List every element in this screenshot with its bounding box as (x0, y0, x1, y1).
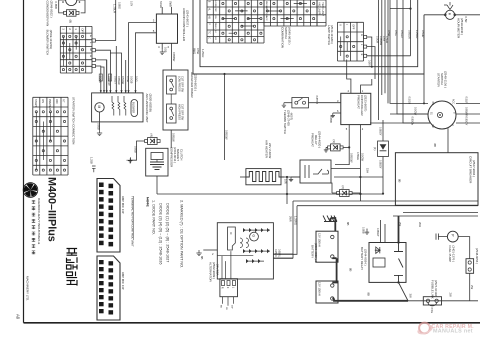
svg-text:ON: ON (214, 15, 216, 19)
lamp switch table (338, 22, 364, 61)
low press cut switch (167, 76, 177, 94)
svg-text:AMP MIC 13P: AMP MIC 13P (121, 196, 125, 214)
svg-text:0.85B: 0.85B (54, 2, 58, 9)
svg-text:0.5GW: 0.5GW (414, 107, 418, 116)
svg-text:PREHEAT: PREHEAT (48, 99, 51, 111)
battery B1 (316, 231, 338, 262)
Daewoo logo flower (23, 183, 38, 198)
svg-text:(2549-9102 ): (2549-9102 ) (50, 1, 54, 18)
inline connector marks (99, 74, 102, 81)
svg-text:RECEIVER DRIER: RECEIVER DRIER (190, 72, 194, 98)
svg-text:15A: 15A (366, 168, 370, 173)
wire thermo left ground (284, 102, 292, 104)
bundle arrowheads (100, 90, 137, 93)
aircon controller top pins (162, 7, 171, 14)
blower switch SW1 table (60, 26, 92, 73)
svg-text:OFF: OFF (214, 8, 216, 13)
svg-text:HI: HI (214, 31, 216, 34)
svg-text:P: P (450, 234, 454, 236)
svg-text:CUT OFF SW: CUT OFF SW (181, 76, 185, 93)
starter switch SW2 (428, 101, 456, 129)
svg-text:P/T: P/T (62, 99, 64, 103)
svg-text:0.85LW: 0.85LW (172, 133, 176, 142)
svg-text:STARTER: STARTER (437, 73, 441, 88)
svg-text:8B: 8B (346, 222, 350, 226)
wire alternator F line (217, 255, 253, 257)
svg-text:1.25LR: 1.25LR (201, 49, 205, 57)
svg-text:(2): (2) (341, 186, 345, 189)
svg-text:0.5LW: 0.5LW (421, 30, 425, 38)
wire bundle top right (390, 0, 430, 123)
svg-text:(2401-1276 ): (2401-1276 ) (452, 246, 456, 263)
svg-text:STARTER SWITCH CONNECTION: STARTER SWITCH CONNECTION (72, 97, 76, 144)
svg-text:0.85GW: 0.85GW (349, 153, 353, 163)
alternator G1 (217, 223, 273, 279)
svg-text:TC: TC (208, 31, 210, 34)
svg-text:0.25LR: 0.25LR (274, 249, 277, 257)
thermo switch (292, 98, 309, 108)
svg-text:M400–IIIPlus: M400–IIIPlus (46, 177, 58, 242)
wire pin2 long drop (359, 128, 361, 201)
svg-text:FUEL PUMP: FUEL PUMP (448, 246, 452, 263)
alternator ground 8B (203, 249, 217, 251)
svg-text:0.85YB: 0.85YB (315, 96, 319, 105)
svg-text:8B: 8B (349, 268, 353, 272)
svg-text:(2204-9033 ): (2204-9033 ) (194, 74, 198, 91)
wire starter B down (447, 128, 449, 152)
svg-text:M: M (97, 106, 101, 109)
svg-text:(2920-9025B): (2920-9025B) (149, 94, 153, 112)
svg-text:DIODE (3) (4) (9) − (12) : 254: DIODE (3) (4) (9) − (12) : 2548-1026 (159, 203, 163, 265)
wires starter switch right (456, 103, 480, 123)
svg-text:0.85GW: 0.85GW (225, 130, 229, 140)
starter connection contacts (35, 111, 37, 113)
svg-text:(2527-9004 ): (2527-9004 ) (472, 160, 476, 177)
aircon controller left pins wires (107, 23, 157, 93)
hour meter top bracket (444, 2, 453, 10)
svg-text:TERMINAL NO FOR CONTROL UNIT: TERMINAL NO FOR CONTROL UNIT (131, 196, 135, 247)
air handling unit box (92, 93, 143, 122)
svg-text:0.85GR: 0.85GR (408, 30, 412, 39)
svg-text:(A545-9615 ): (A545-9615 ) (288, 27, 292, 45)
circuit breaker box (395, 153, 478, 206)
lamp switch terminals (364, 36, 367, 39)
svg-text:20A: 20A (418, 222, 422, 227)
alternator regulator box (228, 227, 236, 250)
svg-text:0.5W: 0.5W (126, 76, 130, 83)
fuse holder (466, 259, 474, 274)
bus wire y201 (293, 200, 478, 202)
bus wire y216 (393, 215, 478, 217)
svg-text:BR: BR (431, 102, 433, 106)
svg-text:2WR: 2WR (289, 216, 293, 222)
wire air handling ground (99, 112, 101, 130)
preheat relay K1 (300, 160, 331, 183)
bus wire y212 (403, 211, 478, 213)
wire bundle to air handling unit (116, 46, 125, 93)
preheat controller U2 (341, 93, 371, 124)
svg-text:DAEWOO HEAVY INDUSTRIES &: DAEWOO HEAVY INDUSTRIES & (37, 198, 41, 244)
svg-text:MACHINERY LTD.: MACHINERY LTD. (26, 276, 30, 301)
svg-text:THERMO SWITCH: THERMO SWITCH (283, 110, 287, 134)
preheat relay ground (291, 176, 300, 178)
wire drops middle (273, 194, 297, 258)
svg-text:(2548-27435: (2548-27435 (286, 110, 290, 126)
aircon controller bottom pin 4 with ground (161, 43, 163, 49)
svg-text:(2523-9007): (2523-9007) (364, 95, 368, 111)
svg-text:0.85WL: 0.85WL (277, 249, 280, 258)
wire thermo to preheat controller (309, 102, 341, 104)
svg-text:CIRCUIT BREAKER: CIRCUIT BREAKER (469, 156, 473, 184)
combination switch table right section (264, 0, 317, 26)
svg-text:FUSIBLE LINK: FUSIBLE LINK (431, 280, 435, 299)
wires lamp switch right (367, 37, 411, 79)
bus wire y194 (157, 193, 383, 195)
battery B2 (316, 281, 338, 303)
alternator rotor circle (250, 232, 259, 241)
svg-text:HU: HU (208, 16, 210, 20)
svg-text:(3): (3) (332, 140, 336, 143)
svg-text:(2549-113203): (2549-113203) (49, 30, 53, 49)
svg-text:0.85B: 0.85B (329, 116, 333, 123)
wire hour meter right (455, 14, 480, 16)
svg-text:OFF: OFF (352, 24, 356, 30)
air handling resistors (112, 96, 126, 116)
blower switch contacts (62, 35, 64, 37)
svg-text:BATTERY RELAY: BATTERY RELAY (360, 247, 364, 270)
battery interconnect cable (332, 258, 336, 282)
wire 15A line (331, 169, 383, 178)
ground below air handling (97, 130, 102, 136)
wire diode3 right (343, 146, 349, 148)
blower oval label (131, 100, 138, 117)
svg-text:1.25LR: 1.25LR (113, 4, 117, 13)
svg-text:1. DIODE PART NO.: 1. DIODE PART NO. (152, 200, 156, 235)
wires alternator right to bus (273, 254, 293, 258)
battery relay top thick cable (398, 216, 400, 243)
condenser fan motor M1 (66, 0, 77, 6)
wire condenser fan left lead (59, 0, 85, 13)
Korean company glyphs drawn (32, 201, 35, 204)
svg-text:(4): (4) (149, 134, 153, 137)
svg-text:BLOWER SWITCH: BLOWER SWITCH (46, 30, 50, 56)
wire pin5 to preheat relay (335, 128, 349, 164)
head lamp header column (317, 0, 326, 26)
svg-text:0.5GB: 0.5GB (130, 76, 134, 84)
svg-text:HORN: HORN (214, 1, 216, 8)
svg-text:0.5GR: 0.5GR (376, 36, 379, 43)
Korean logotype block drawn (67, 249, 78, 286)
receiver drier box (163, 70, 188, 130)
svg-text:(9): (9) (69, 20, 73, 24)
svg-text:0.5G: 0.5G (430, 308, 434, 314)
svg-text:SWITCH: SWITCH (440, 73, 444, 85)
svg-text:0.85GY: 0.85GY (379, 127, 382, 136)
svg-text:(2539-9040 ): (2539-9040 ) (460, 18, 464, 35)
svg-text:0.5W: 0.5W (196, 48, 200, 55)
battery relay ground (366, 229, 368, 231)
svg-text:MANUALS net: MANUALS net (433, 329, 473, 335)
combination switch link bars (222, 4, 307, 34)
svg-text:A0: A0 (16, 314, 21, 320)
svg-text:0.5Y: 0.5Y (130, 1, 133, 6)
combination switch table left section (207, 0, 264, 43)
svg-text:0.85Gb: 0.85Gb (411, 117, 415, 126)
svg-text:R: R (221, 287, 225, 289)
svg-text:COMBINATION: COMBINATION (281, 27, 285, 48)
svg-text:0.85B: 0.85B (133, 146, 137, 153)
svg-text:DIODE (1) (2) (5) − (8) : 25: DIODE (1) (2) (5) − (8) : 2548-1027 (166, 203, 170, 262)
svg-text:0.5GO: 0.5GO (400, 30, 404, 38)
watermark logo circle (418, 323, 474, 335)
battery relay contacts (394, 243, 403, 283)
svg-text:1.25B: 1.25B (90, 157, 94, 164)
alternator stator coils (240, 238, 248, 248)
svg-text:(2548-9056 ): (2548-9056 ) (475, 248, 479, 264)
svg-text:0.85LY: 0.85LY (114, 76, 118, 84)
svg-text:CUT OFF SW: CUT OFF SW (181, 104, 185, 121)
connector CN2 AMP MIC 13P (97, 256, 120, 320)
svg-text:12V 150AH: 12V 150AH (318, 282, 322, 296)
preheat controller pin6 ground (333, 112, 341, 114)
svg-text:(2549-1136 ): (2549-1136 ) (444, 71, 448, 88)
svg-text:0.5GW: 0.5GW (361, 153, 365, 162)
preheat controller bottom pins (349, 125, 360, 129)
diode D1 (382, 120, 384, 194)
wire fuse down (469, 273, 471, 301)
svg-text:ACC: ACC (265, 16, 268, 21)
fuel pump left lead (436, 234, 447, 240)
svg-text:0.85B: 0.85B (362, 227, 365, 234)
svg-text:0.5GO: 0.5GO (408, 97, 412, 105)
svg-text:(2543-113201): (2543-113201) (330, 25, 334, 44)
svg-text:22V 2.6KW: 22V 2.6KW (268, 143, 272, 158)
svg-text:0.85LgB: 0.85LgB (108, 76, 112, 86)
svg-text:1.25LR: 1.25LR (415, 30, 419, 38)
battery relay diode (375, 247, 381, 253)
svg-text:2W: 2W (449, 293, 453, 298)
svg-text:ON: ON (41, 99, 44, 103)
svg-text:0.5WG: 0.5WG (356, 152, 359, 160)
fuel pump M4 (447, 231, 458, 242)
svg-text:0.85BW: 0.85BW (172, 52, 176, 62)
wire blower E to 1.25LR riser (95, 0, 115, 41)
fuel pump right wire (458, 237, 470, 259)
svg-text:(2543-9037 ): (2543-9037 ) (186, 10, 190, 27)
wire air heater to preheat relay (281, 176, 300, 178)
svg-text:HEAD LAMP: HEAD LAMP (321, 2, 324, 16)
svg-text:CONTROLLER: CONTROLLER (360, 95, 364, 116)
high press cut switch (167, 104, 177, 123)
wire relay to fusible link (399, 282, 409, 300)
preheat controller pins (347, 60, 372, 94)
battery ground hatched (323, 216, 337, 222)
svg-text:0.85RW: 0.85RW (379, 36, 382, 46)
air heater R1 (246, 169, 281, 185)
diode D3 (331, 144, 341, 151)
svg-text:RELAY: RELAY (314, 135, 318, 145)
svg-text:BLOWER: BLOWER (131, 102, 135, 113)
battery relay coil box (373, 258, 385, 267)
svg-text:8B: 8B (367, 293, 371, 297)
wire air heater left (240, 176, 246, 178)
svg-text:AIR HEATER: AIR HEATER (264, 140, 268, 159)
svg-text:0.5Y: 0.5Y (382, 36, 385, 41)
svg-text:PREHEAT: PREHEAT (311, 133, 315, 147)
border frame bottom (24, 322, 480, 324)
svg-text:AIR HANDLING UNIT: AIR HANDLING UNIT (145, 94, 149, 123)
battery relay K2 (369, 243, 406, 283)
svg-text:AMP MIC 13P: AMP MIC 13P (121, 272, 125, 290)
compressor box (146, 148, 168, 176)
svg-text:8B: 8B (398, 179, 402, 183)
wire diode3 ground (326, 146, 328, 148)
svg-text:2. MARKED (*) : CE OPTION PART: 2. MARKED (*) : CE OPTION PART NO. (180, 200, 184, 268)
svg-text:0.85B: 0.85B (96, 123, 100, 130)
svg-text:(2544-9034 ): (2544-9034 ) (364, 249, 368, 266)
wire blower L down (95, 50, 121, 93)
svg-text:0.85LW: 0.85LW (117, 76, 121, 85)
ground compressor left (127, 157, 131, 163)
svg-text:ALTERNATOR: ALTERNATOR (209, 262, 213, 283)
battery relay wires to top verticals (381, 220, 385, 243)
svg-text:OFF: OFF (81, 28, 85, 34)
svg-text:(2506-6008 )x2: (2506-6008 )x2 (314, 243, 318, 263)
svg-text:CONDENSER FAN: CONDENSER FAN (46, 1, 50, 27)
wire receiver drier to compressor (170, 130, 172, 148)
svg-text:0.85GY: 0.85GY (379, 160, 382, 169)
hour meter M3 (445, 10, 454, 19)
battery cable B1+ (331, 218, 336, 231)
svg-text:(1): (1) (373, 147, 377, 150)
wire heater junction down (286, 177, 288, 194)
wire receiver drier internal (170, 94, 172, 104)
svg-text:PREHEAT: PREHEAT (357, 95, 361, 109)
aircon controller U1 (156, 14, 177, 43)
alternator connector stubs (223, 297, 234, 306)
svg-text:ACC: ACC (452, 99, 455, 104)
junction dot W1 (223, 73, 225, 75)
wire diode2 right (352, 192, 360, 194)
wire 0.85GW drop to preheat area (224, 74, 226, 160)
svg-text:SWITCH: SWITCH (284, 27, 288, 39)
svg-text:CLUTCH: CLUTCH (179, 149, 183, 160)
wire aircon pin2 to low press sw (171, 43, 173, 70)
blower motor M2 (95, 103, 104, 112)
svg-text:SOLR: SOLR (159, 1, 163, 8)
fusible link F1 (423, 297, 441, 305)
svg-text:(2544-4020 ): (2544-4020 ) (318, 131, 322, 148)
svg-text:LAMP SWITCH: LAMP SWITCH (327, 25, 331, 45)
magnet clutch symbol (151, 153, 163, 160)
svg-text:IC: IC (229, 232, 233, 235)
wire diode4 left to ground (131, 141, 145, 160)
svg-text:START: START (34, 99, 37, 107)
svg-text:HOUR METER: HOUR METER (457, 18, 461, 39)
wire diode2 left (331, 183, 337, 193)
svg-text:2R: 2R (225, 307, 227, 310)
harness wire W1 outer (193, 0, 424, 74)
svg-text:0.5LR: 0.5LR (465, 97, 469, 104)
svg-text:LO: LO (214, 37, 216, 40)
alternator diodes (243, 228, 270, 263)
svg-text:24V 50A: 24V 50A (216, 264, 220, 276)
svg-text:0.5W: 0.5W (387, 30, 391, 37)
svg-text:0.5GR: 0.5GR (385, 36, 388, 43)
svg-text:8B: 8B (200, 256, 204, 260)
fusible link wire y300.8 (408, 300, 478, 302)
svg-text:8B: 8B (433, 144, 437, 148)
svg-text:E: E (89, 35, 93, 37)
alternator bottom connector (220, 279, 238, 297)
svg-text:PASS: PASS (214, 23, 217, 29)
svg-text:AIRCON CONTROLLER: AIRCON CONTROLLER (182, 8, 186, 42)
svg-text:3W: 3W (409, 294, 413, 299)
border frame left (23, 0, 25, 323)
wire bundle mid right (379, 0, 389, 120)
svg-text:0.85GY: 0.85GY (465, 117, 469, 126)
svg-text:0.5GL: 0.5GL (98, 76, 102, 84)
bus wire y205.5 (297, 205, 478, 207)
svg-text:OFF: OFF (55, 99, 58, 104)
svg-text:2W: 2W (470, 285, 474, 290)
svg-text:(2527-1013A): (2527-1013A) (434, 280, 438, 297)
svg-text:(2502-9009 ): (2502-9009 ) (212, 262, 216, 279)
svg-text:-6007): -6007) (290, 112, 294, 120)
blower switch terminals (92, 39, 95, 42)
junction line y8.6 (390, 8, 411, 10)
svg-text:0.85WR: 0.85WR (465, 107, 469, 116)
diode D2 (340, 190, 350, 197)
svg-text:BATTERY: BATTERY (311, 245, 315, 258)
diode D9 condenser fan (67, 10, 77, 17)
svg-text:0.5G: 0.5G (394, 30, 398, 36)
wire hour meter left (424, 14, 445, 16)
wire compressor down to bus (156, 176, 158, 194)
svg-text:1.25RG: 1.25RG (294, 216, 298, 225)
svg-text:0.85G: 0.85G (117, 2, 120, 9)
svg-text:HND LAMP: HND LAMP (318, 2, 321, 15)
svg-text:0.5RY: 0.5RY (368, 60, 371, 67)
combination switch contacts (222, 2, 224, 4)
harness wire W2 inner (200, 0, 418, 67)
svg-text:0.85GY: 0.85GY (376, 228, 379, 237)
starter switch connection table (33, 97, 68, 175)
wires starter switch left (370, 114, 430, 123)
diode D4 (148, 138, 158, 145)
connector CN1 AMP MIC 13P (97, 179, 120, 253)
battery output cable 8B (332, 299, 408, 301)
svg-text:0.5GW: 0.5GW (121, 76, 125, 85)
svg-text:SWB: SWB (169, 1, 173, 7)
svg-text:H: H (89, 55, 93, 57)
